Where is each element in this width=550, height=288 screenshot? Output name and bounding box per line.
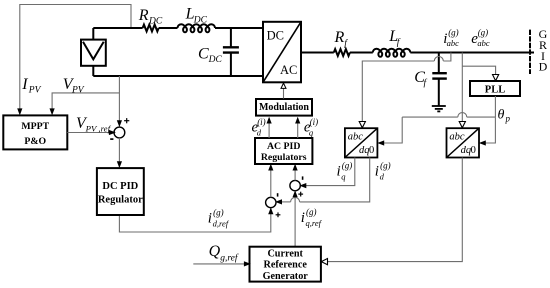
svg-text:abc: abc <box>447 38 460 48</box>
node open arrow into abc/dq0 #1 <box>359 122 365 128</box>
svg-text:R: R <box>334 29 345 46</box>
sign minus tick S2 <box>277 193 279 196</box>
svg-text:PLL: PLL <box>485 84 505 95</box>
svg-text:(i): (i) <box>310 117 319 127</box>
wire AC line <box>301 52 334 54</box>
svg-text:AC: AC <box>280 63 297 77</box>
wire PV top stub <box>92 28 94 40</box>
svg-text:PV ,ref: PV ,ref <box>85 124 112 134</box>
wire PV bottom stub <box>92 66 94 76</box>
svg-text:Regulators: Regulators <box>261 152 307 163</box>
wire S1 to DC PID <box>118 138 120 167</box>
wire e_d to Modulation <box>268 119 270 139</box>
capacitor C_DC <box>230 28 232 47</box>
svg-text:Modulation: Modulation <box>259 102 309 113</box>
svg-text:Current: Current <box>267 248 303 259</box>
wire branch to PLL <box>462 66 495 76</box>
svg-text:MPPT: MPPT <box>21 121 49 132</box>
resistor R_DC <box>143 25 159 32</box>
svg-text:(g): (g) <box>478 28 489 38</box>
Modulation box <box>256 99 312 116</box>
wire V_PV,ref from MPPT to S1 <box>67 132 113 134</box>
inductor L_f <box>373 49 411 57</box>
wire <box>410 52 534 54</box>
svg-text:DC PID: DC PID <box>102 181 138 192</box>
wire S2 output up into AC PID <box>270 166 272 198</box>
abc/dq0 box1 <box>345 128 378 157</box>
capacitor C_f <box>438 53 440 73</box>
inductor L_DC <box>178 24 216 32</box>
resistor R_f <box>334 49 350 56</box>
wire <box>159 27 178 29</box>
svg-text:(g): (g) <box>342 160 353 170</box>
node open arrow into CRG <box>321 259 327 265</box>
svg-text:Reference: Reference <box>264 260 308 271</box>
ground <box>432 105 446 107</box>
node I_PV arrow into MPPT <box>17 108 22 115</box>
DC PID Regulator box <box>97 168 144 215</box>
wire theta_p from PLL <box>494 96 496 117</box>
svg-text:C: C <box>198 46 209 63</box>
svg-text:PV: PV <box>28 86 42 96</box>
sign plus S1 <box>124 120 129 122</box>
wire e_dq from box2 to CRG <box>328 158 462 262</box>
svg-text:DC: DC <box>208 55 223 65</box>
wire V_PV sense <box>118 76 120 124</box>
svg-text:0: 0 <box>471 145 476 156</box>
svg-text:θ: θ <box>498 108 505 123</box>
summing junction S2 <box>266 197 276 207</box>
wire theta_p to box1 <box>380 117 403 143</box>
svg-text:(g): (g) <box>448 28 459 38</box>
svg-text:i: i <box>301 210 305 226</box>
PLL box <box>470 81 520 96</box>
svg-text:AC PID: AC PID <box>267 141 300 152</box>
summing junction S3 <box>290 180 300 190</box>
sign minus tick S3 <box>302 176 304 179</box>
Current Reference Generator box <box>250 247 321 282</box>
wire Q_g,ref into CRG <box>193 263 248 265</box>
abc/dq0 box2 <box>447 128 480 157</box>
wire theta_p to box2 <box>481 117 495 143</box>
svg-text:(g): (g) <box>306 207 317 217</box>
svg-text:g,ref: g,ref <box>220 253 239 264</box>
svg-text:(g): (g) <box>213 207 224 217</box>
svg-text:D: D <box>539 60 548 74</box>
svg-text:(g): (g) <box>380 160 391 170</box>
svg-text:p: p <box>505 114 511 124</box>
sign plus S3 <box>298 193 303 195</box>
svg-text:q,ref: q,ref <box>306 218 323 228</box>
wire e_abc sense <box>461 53 463 124</box>
sign minus S1 <box>110 138 113 140</box>
wire I_PV sense loop <box>20 5 131 112</box>
svg-text:abc: abc <box>477 38 490 48</box>
svg-text:d: d <box>380 171 385 181</box>
wire i_q,ref from CRG top <box>294 191 296 247</box>
svg-text:Q: Q <box>209 243 221 260</box>
svg-text:PV: PV <box>71 86 85 96</box>
wire i_abc sense <box>443 53 451 62</box>
svg-text:DC: DC <box>148 17 163 27</box>
svg-text:d: d <box>257 128 262 138</box>
node open arrow into converter <box>281 83 286 88</box>
svg-text:DC: DC <box>193 16 208 26</box>
svg-text:P&O: P&O <box>24 136 46 147</box>
svg-text:i: i <box>337 164 341 180</box>
PV panel <box>81 40 106 66</box>
svg-text:R: R <box>138 7 149 24</box>
wire i_q from box1 <box>302 158 355 186</box>
wire S3 output up into AC PID <box>294 166 296 181</box>
node open arrow into abc/dq0 #2 <box>459 122 465 128</box>
svg-text:q: q <box>341 171 346 181</box>
svg-text:DC: DC <box>267 29 284 43</box>
svg-text:abc: abc <box>348 131 364 142</box>
svg-text:(i): (i) <box>257 117 266 127</box>
grid dashed line <box>529 30 531 74</box>
summing junction S1 <box>114 127 125 138</box>
svg-text:Generator: Generator <box>263 271 309 282</box>
wire Modulation to converter <box>283 88 285 98</box>
AC PID Regulators box <box>255 138 312 164</box>
svg-text:q: q <box>309 128 314 138</box>
svg-text:0: 0 <box>369 145 374 156</box>
wire <box>350 52 373 54</box>
svg-text:dq: dq <box>359 145 370 156</box>
wire <box>215 27 263 29</box>
svg-text:d,ref: d,ref <box>213 218 230 228</box>
sign plus S2 <box>276 214 281 216</box>
converter DC/AC <box>263 22 301 83</box>
svg-text:i: i <box>375 164 379 180</box>
wire DC bottom rail <box>93 75 263 77</box>
wire e_q to Modulation <box>297 119 299 139</box>
node V_PV arrow into MPPT <box>50 108 55 115</box>
wire i_d from box1 (hop over i_q,ref) <box>300 158 370 202</box>
node open arrow into PLL <box>493 75 499 81</box>
svg-text:I: I <box>21 76 28 93</box>
svg-text:dq: dq <box>461 145 472 156</box>
wire DC top rail <box>93 27 142 29</box>
wire i_d,ref from DC PID <box>119 208 270 232</box>
node V_PV arrow into S1 <box>117 120 122 127</box>
svg-text:Regulator: Regulator <box>98 195 143 206</box>
MPPT box <box>3 115 67 149</box>
svg-text:abc: abc <box>449 131 465 142</box>
svg-text:i: i <box>208 211 212 227</box>
